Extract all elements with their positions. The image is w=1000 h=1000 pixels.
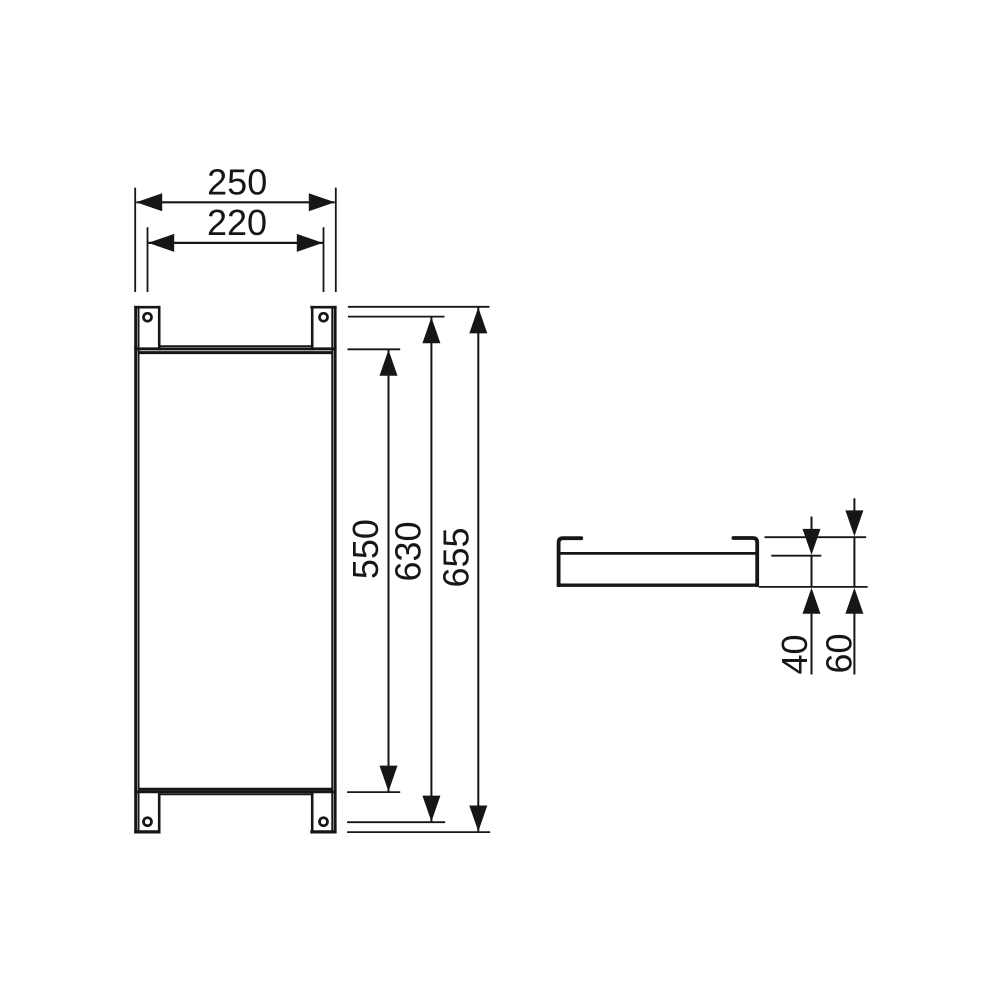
bottom inner panel line — [139, 788, 333, 791]
60 top arrowhead — [845, 510, 863, 536]
60 bottom arrowhead — [845, 588, 863, 614]
630 top arrowhead — [422, 317, 440, 343]
220 right extension line — [323, 227, 325, 292]
top-right tab hole — [320, 313, 328, 321]
top thin edge between tabs — [159, 345, 312, 347]
bottom fold line full width — [134, 791, 336, 794]
40 bottom dimension tail — [811, 613, 813, 675]
inner left fold line — [138, 306, 140, 834]
svg-text:550: 550 — [345, 519, 386, 579]
bottom-left tab hole — [144, 818, 152, 826]
655 top extension line — [348, 306, 490, 308]
bottom-right tab bottom edge — [310, 830, 336, 833]
220 right arrowhead — [297, 234, 323, 252]
550 bottom extension line — [347, 791, 400, 793]
630 top extension line — [348, 316, 445, 318]
svg-text:655: 655 — [436, 527, 477, 587]
svg-text:60: 60 — [818, 633, 859, 673]
top-right tab left edge — [311, 306, 314, 351]
220 dimension line — [148, 242, 322, 244]
250 left arrowhead — [136, 193, 162, 211]
bottom-left tab bottom edge — [134, 830, 160, 833]
top-left tab hole — [144, 313, 152, 321]
bottom thin edge between tabs — [159, 793, 312, 795]
550 dimension line — [388, 350, 390, 791]
60 top extension line — [765, 536, 867, 538]
svg-text:630: 630 — [388, 521, 429, 581]
svg-text:40: 40 — [774, 634, 815, 674]
top-right tab top edge — [310, 306, 336, 309]
40 bottom arrowhead — [803, 588, 821, 614]
40 dimension line middle segment — [811, 555, 813, 588]
svg-text:250: 250 — [207, 161, 267, 202]
bottom-right tab hole — [320, 818, 328, 826]
220 left extension line — [147, 227, 149, 292]
outer left edge — [134, 306, 137, 834]
250 dimension line — [136, 201, 334, 203]
top-left tab right edge — [158, 306, 161, 351]
40 top extension line — [771, 555, 821, 557]
profile bottom line — [557, 584, 758, 587]
bottom-right tab left edge — [311, 791, 314, 834]
bottom extension line — [759, 586, 868, 588]
250 left extension line — [134, 188, 136, 292]
top-left tab top edge — [134, 306, 160, 309]
40 top dimension tail — [811, 517, 813, 531]
profile inner top surface line — [560, 552, 756, 555]
top fold line full width — [134, 347, 336, 350]
220 left arrowhead — [148, 234, 174, 252]
profile left wall and top-left lip — [559, 538, 582, 585]
655 bottom extension line — [347, 831, 490, 833]
60 top dimension tail — [853, 498, 855, 511]
bottom-left tab right edge — [158, 791, 161, 834]
550 top arrowhead — [380, 350, 398, 376]
655 top arrowhead — [469, 307, 487, 333]
profile right wall and top-right lip — [733, 538, 757, 585]
svg-text:220: 220 — [207, 202, 267, 243]
550 bottom arrowhead — [380, 766, 398, 792]
655 dimension line — [477, 308, 479, 832]
outer right edge — [334, 306, 337, 834]
60 bottom dimension tail — [853, 613, 855, 675]
top inner panel line — [139, 351, 333, 354]
60 dimension line middle segment — [853, 536, 855, 587]
inner right fold line — [331, 306, 333, 834]
630 bottom arrowhead — [422, 796, 440, 822]
550 top extension line — [348, 348, 401, 350]
250 right arrowhead — [309, 193, 335, 211]
630 dimension line — [430, 317, 432, 821]
250 right extension line — [335, 188, 337, 292]
630 bottom extension line — [347, 821, 445, 823]
655 bottom arrowhead — [469, 806, 487, 832]
40 top arrowhead — [803, 529, 821, 555]
